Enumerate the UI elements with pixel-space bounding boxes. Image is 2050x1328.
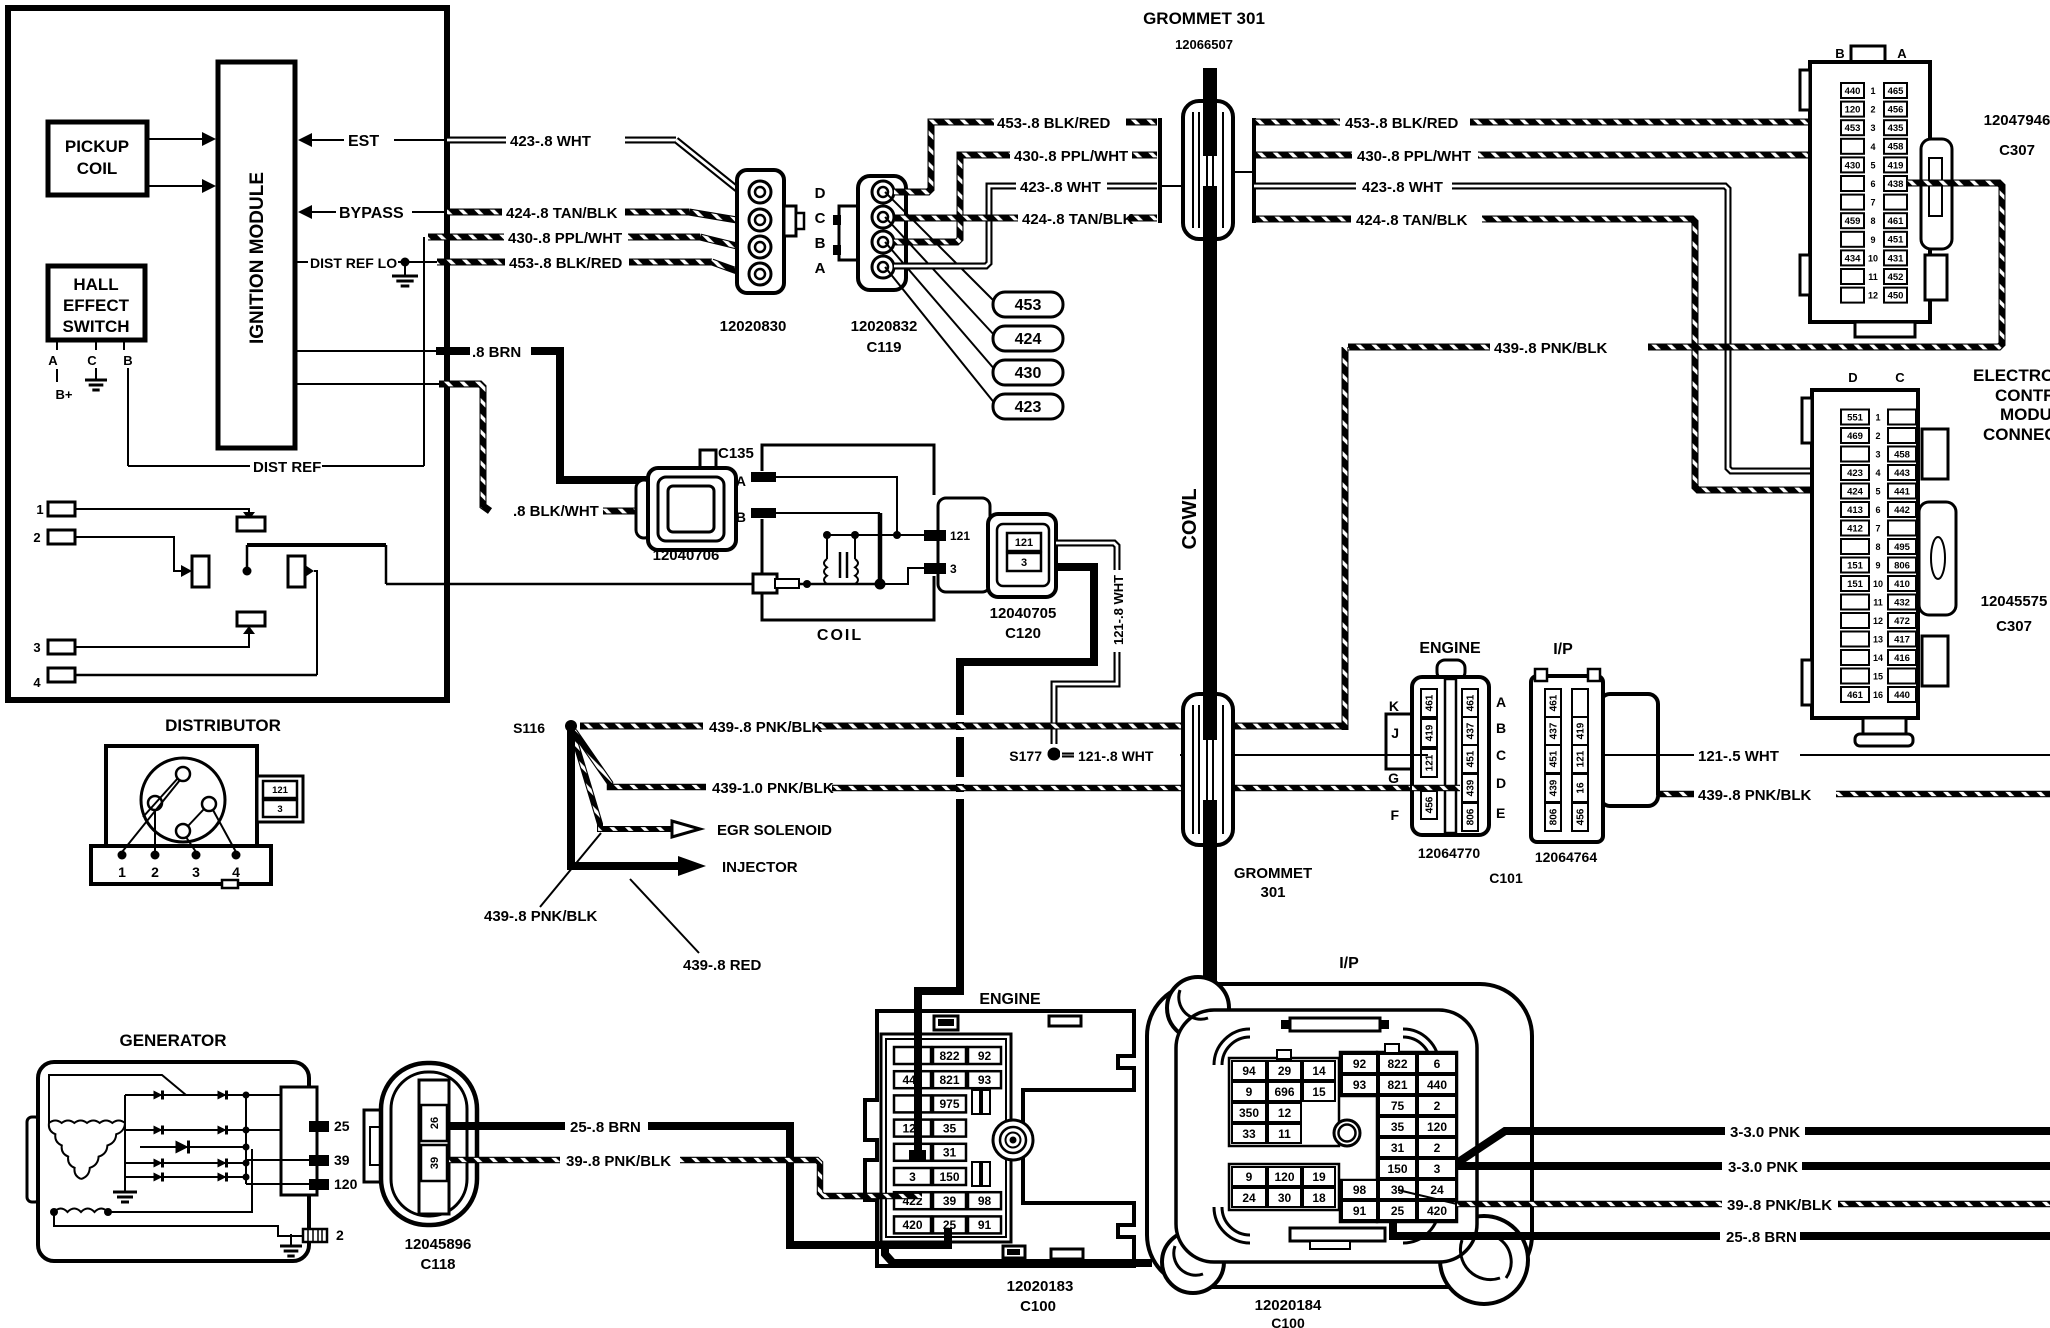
svg-text:437: 437 bbox=[1466, 722, 1477, 739]
rotor contact 1 bbox=[176, 767, 190, 781]
svg-text:806: 806 bbox=[1549, 808, 1560, 825]
wire .8 BLK/WHT bbox=[439, 384, 490, 511]
pin row 6 of 12047946 bbox=[1841, 176, 1864, 191]
svg-text:437: 437 bbox=[1549, 722, 1560, 739]
svg-text:150: 150 bbox=[939, 1170, 959, 1184]
svg-text:C119: C119 bbox=[866, 339, 901, 356]
svg-text:16: 16 bbox=[1576, 782, 1587, 794]
svg-text:120: 120 bbox=[1845, 105, 1861, 116]
pin row 6 of 12020183 bbox=[894, 1168, 931, 1185]
rotor contact 2 bbox=[148, 796, 162, 810]
cap lead 3 bbox=[186, 837, 196, 852]
svg-text:3: 3 bbox=[909, 1170, 916, 1184]
svg-text:C: C bbox=[87, 353, 97, 368]
pin row 11 of 12045575 bbox=[1841, 595, 1869, 610]
svg-text:COIL: COIL bbox=[817, 627, 863, 644]
svg-text:432: 432 bbox=[1894, 597, 1910, 608]
svg-text:30: 30 bbox=[1278, 1191, 1292, 1205]
pin row 13 of 12045575 bbox=[1841, 632, 1869, 647]
wire 439-1.0 PNK/BLK bbox=[574, 731, 706, 787]
svg-text:424: 424 bbox=[1847, 486, 1864, 497]
svg-text:C118: C118 bbox=[420, 1256, 455, 1273]
svg-text:GROMMET 301: GROMMET 301 bbox=[1143, 9, 1265, 28]
svg-text:822: 822 bbox=[1387, 1057, 1407, 1071]
ground at DIST REF LO bbox=[404, 264, 406, 276]
svg-text:696: 696 bbox=[1274, 1085, 1294, 1099]
upper left grid bbox=[1229, 1058, 1339, 1146]
svg-text:121-.8 WHT: 121-.8 WHT bbox=[1078, 748, 1154, 764]
svg-text:39-.8 PNK/BLK: 39-.8 PNK/BLK bbox=[566, 1153, 671, 1170]
svg-text:35: 35 bbox=[943, 1121, 957, 1135]
connector 12040705 C120 bbox=[938, 498, 990, 592]
svg-text:C100: C100 bbox=[1020, 1298, 1056, 1315]
wire stator feed top bbox=[49, 1075, 186, 1123]
node junction 3 bbox=[875, 579, 886, 590]
svg-text:3: 3 bbox=[277, 804, 282, 815]
circuit oval 453 bbox=[993, 292, 1063, 317]
svg-text:.8 BLK/WHT: .8 BLK/WHT bbox=[513, 503, 599, 520]
svg-text:12045896: 12045896 bbox=[405, 1236, 472, 1253]
rotor contact 4 bbox=[176, 824, 190, 838]
svg-text:435: 435 bbox=[1888, 123, 1905, 134]
diode bus right bbox=[245, 1095, 247, 1184]
svg-text:ENGINE: ENGINE bbox=[1419, 640, 1481, 657]
contact E1 bbox=[243, 512, 255, 520]
svg-text:439-.8 PNK/BLK: 439-.8 PNK/BLK bbox=[484, 908, 598, 925]
generator case bbox=[27, 1117, 40, 1202]
svg-text:423-.8 WHT: 423-.8 WHT bbox=[1362, 179, 1443, 196]
pin row 11 of 12047946 bbox=[1841, 269, 1864, 284]
svg-text:121-.8 WHT: 121-.8 WHT bbox=[1111, 575, 1126, 645]
wire to pin 120 bbox=[246, 1183, 309, 1185]
cap lead 4 bbox=[213, 810, 236, 852]
svg-text:A: A bbox=[815, 260, 826, 277]
wire 121-.5 WHT bbox=[1602, 754, 1694, 756]
pin row 14 of 12045575 bbox=[1841, 650, 1869, 665]
pin row 3 of 12045575 bbox=[1841, 447, 1869, 462]
tab top right bbox=[1049, 1016, 1081, 1026]
wire 439 into pin D bbox=[1412, 785, 1460, 792]
svg-text:459: 459 bbox=[1845, 216, 1861, 227]
svg-text:SWITCH: SWITCH bbox=[62, 317, 129, 336]
svg-text:430: 430 bbox=[1015, 365, 1042, 382]
wire 121 into pin G bbox=[1412, 754, 1428, 756]
distributor cap body bbox=[106, 746, 257, 849]
connector 12040706 bbox=[636, 480, 652, 538]
svg-text:439: 439 bbox=[1549, 779, 1560, 796]
lower left grid bbox=[1229, 1164, 1339, 1210]
pin row 4 of 12047946 bbox=[1841, 139, 1864, 154]
svg-text:11: 11 bbox=[1868, 272, 1878, 282]
grommet 301 upper bbox=[1183, 101, 1233, 239]
svg-text:456: 456 bbox=[1888, 105, 1904, 116]
coil feed line from distributor bbox=[385, 545, 388, 584]
node DIST REF bbox=[128, 465, 250, 467]
svg-text:25-.8 BRN: 25-.8 BRN bbox=[1726, 1229, 1797, 1246]
svg-text:151: 151 bbox=[1847, 560, 1864, 571]
wire to EGR solenoid bbox=[573, 734, 672, 829]
pin row 7 of 12020183 bbox=[894, 1192, 931, 1209]
svg-text:416: 416 bbox=[1894, 653, 1910, 664]
circuit oval 423 bbox=[993, 394, 1063, 419]
svg-text:495: 495 bbox=[1894, 542, 1911, 553]
svg-text:HALL: HALL bbox=[73, 275, 118, 294]
grommet 301 lower bbox=[1183, 694, 1233, 845]
svg-text:439: 439 bbox=[1466, 779, 1477, 796]
svg-text:4: 4 bbox=[1870, 142, 1875, 152]
wire 430-.8 PPL/WHT bbox=[428, 234, 504, 241]
svg-text:C307: C307 bbox=[1996, 618, 2032, 635]
svg-text:7: 7 bbox=[1875, 524, 1880, 534]
node DIST REF LO bbox=[295, 261, 308, 263]
coil core bbox=[839, 552, 842, 578]
svg-text:.8 BRN: .8 BRN bbox=[472, 344, 521, 361]
svg-text:121-.5 WHT: 121-.5 WHT bbox=[1698, 748, 1779, 765]
rotor contact 3 bbox=[202, 797, 216, 811]
contact E4 bbox=[237, 612, 265, 626]
wire A to 121 node bbox=[776, 477, 897, 533]
pickup coil bbox=[48, 122, 147, 195]
svg-text:35: 35 bbox=[1391, 1120, 1405, 1134]
svg-text:430: 430 bbox=[1845, 160, 1861, 171]
pin row 2 of 12047946 bbox=[1841, 102, 1864, 117]
svg-text:424: 424 bbox=[1015, 331, 1042, 348]
svg-text:14: 14 bbox=[1873, 653, 1883, 663]
svg-text:419: 419 bbox=[1576, 722, 1587, 739]
pin row 5 of 12045575 bbox=[1841, 484, 1869, 499]
svg-text:E: E bbox=[1496, 805, 1505, 821]
wire terminal 3 to contact E4 bbox=[75, 634, 249, 647]
ear crescents bbox=[1179, 990, 1208, 1019]
svg-text:469: 469 bbox=[1847, 431, 1863, 442]
svg-text:451: 451 bbox=[1466, 750, 1477, 767]
node S-coil bbox=[803, 580, 811, 588]
pin row 2 of 12020183 bbox=[894, 1071, 931, 1088]
wire 453-.8 BLK/RED bbox=[437, 259, 505, 266]
svg-text:3: 3 bbox=[950, 562, 957, 576]
svg-text:39: 39 bbox=[334, 1152, 350, 1168]
svg-text:I/P: I/P bbox=[1553, 641, 1573, 658]
pin row 3 of 12020183 bbox=[894, 1095, 931, 1112]
pin row 1 of I/P lower-left grid bbox=[1232, 1167, 1266, 1186]
diode row A bbox=[125, 1094, 281, 1096]
wire .8 BRN bbox=[436, 347, 470, 355]
pin row 2 of I/P lower-left grid bbox=[1232, 1188, 1266, 1207]
coil windings bbox=[824, 559, 827, 584]
svg-text:39: 39 bbox=[943, 1194, 957, 1208]
svg-text:A: A bbox=[1897, 46, 1907, 61]
svg-text:92: 92 bbox=[978, 1049, 992, 1063]
svg-text:11: 11 bbox=[1278, 1127, 1291, 1141]
contact E2 bbox=[181, 565, 192, 577]
svg-text:5: 5 bbox=[1870, 160, 1875, 170]
svg-text:B+: B+ bbox=[56, 387, 73, 402]
wire pickup coil to module bbox=[147, 138, 202, 140]
svg-text:12040706: 12040706 bbox=[653, 547, 720, 564]
pin row 1 of 12045575 bbox=[1841, 410, 1869, 425]
wire to injector bbox=[571, 730, 678, 866]
svg-text:S116: S116 bbox=[513, 720, 545, 736]
svg-text:92: 92 bbox=[1353, 1057, 1367, 1071]
connector 12064764 bbox=[1600, 694, 1658, 806]
svg-text:806: 806 bbox=[1466, 808, 1477, 825]
cap lead 2 bbox=[154, 810, 156, 852]
svg-text:93: 93 bbox=[978, 1073, 992, 1087]
svg-text:J: J bbox=[1391, 725, 1399, 741]
svg-text:D: D bbox=[815, 185, 826, 202]
svg-text:I/P: I/P bbox=[1339, 955, 1359, 972]
svg-text:461: 461 bbox=[1847, 690, 1864, 701]
svg-text:301: 301 bbox=[1260, 884, 1285, 901]
pin row 9 of 12045575 bbox=[1841, 558, 1869, 573]
wire 3-3.0 PNK into pin row bbox=[914, 1034, 922, 1158]
svg-text:8: 8 bbox=[1870, 216, 1875, 226]
svg-text:3: 3 bbox=[33, 640, 40, 655]
svg-text:91: 91 bbox=[1353, 1204, 1367, 1218]
wire DIST REF to 430 output bbox=[423, 237, 425, 466]
rotor arm lines bbox=[143, 778, 178, 817]
svg-text:438: 438 bbox=[1888, 179, 1904, 190]
svg-text:456: 456 bbox=[1425, 796, 1436, 813]
svg-text:93: 93 bbox=[1353, 1078, 1367, 1092]
coil case outline bbox=[762, 445, 934, 495]
svg-text:31: 31 bbox=[1391, 1141, 1405, 1155]
cap circle bbox=[141, 758, 225, 842]
svg-text:S177: S177 bbox=[1009, 748, 1042, 764]
wire pickup coil to module 2 bbox=[147, 185, 202, 187]
pin row 4 of 12020183 bbox=[894, 1120, 931, 1137]
svg-text:F: F bbox=[1390, 807, 1399, 823]
svg-text:424-.8 TAN/BLK: 424-.8 TAN/BLK bbox=[506, 205, 618, 222]
terminal dots bbox=[118, 851, 127, 860]
distributor cap base bbox=[91, 846, 271, 884]
svg-text:3: 3 bbox=[1875, 450, 1880, 460]
pin row 3 of 12047946 bbox=[1841, 120, 1864, 135]
svg-text:1: 1 bbox=[118, 864, 126, 880]
svg-text:2: 2 bbox=[1434, 1141, 1441, 1155]
svg-text:DIST REF: DIST REF bbox=[253, 459, 321, 476]
svg-text:456: 456 bbox=[1576, 808, 1587, 825]
wire 424-.8 TAN/BLK (BYPASS) bbox=[447, 209, 502, 216]
callout lines to circuit ovals bbox=[885, 192, 996, 303]
svg-text:440: 440 bbox=[1427, 1078, 1447, 1092]
svg-text:12: 12 bbox=[1868, 291, 1878, 301]
svg-text:2: 2 bbox=[336, 1227, 344, 1243]
svg-text:461: 461 bbox=[1549, 694, 1560, 711]
tab bottom left bbox=[1003, 1246, 1025, 1258]
wire 39-.8 PNK/BLK bbox=[449, 1157, 560, 1164]
svg-text:GENERATOR: GENERATOR bbox=[119, 1031, 226, 1050]
svg-text:458: 458 bbox=[1888, 142, 1904, 153]
svg-text:31: 31 bbox=[943, 1146, 957, 1160]
svg-text:8: 8 bbox=[1875, 542, 1880, 552]
diode row E bbox=[125, 1176, 246, 1178]
svg-text:ENGINE: ENGINE bbox=[979, 991, 1041, 1008]
svg-text:3-3.0 PNK: 3-3.0 PNK bbox=[1730, 1124, 1800, 1141]
pin 39 bbox=[309, 1155, 329, 1166]
svg-text:430-.8 PPL/WHT: 430-.8 PPL/WHT bbox=[1014, 148, 1128, 165]
diode bus left bbox=[124, 1095, 126, 1180]
svg-text:3: 3 bbox=[192, 864, 200, 880]
svg-text:2: 2 bbox=[1870, 105, 1875, 115]
pin row 4 of I/P upper-left grid bbox=[1232, 1124, 1266, 1143]
pin 2 crosshatched bbox=[303, 1229, 327, 1242]
svg-text:439-.8 PNK/BLK: 439-.8 PNK/BLK bbox=[1494, 340, 1608, 357]
svg-text:3-3.0 PNK: 3-3.0 PNK bbox=[1728, 1159, 1798, 1176]
hall pin B bbox=[123, 340, 125, 350]
svg-text:12045575: 12045575 bbox=[1981, 593, 2048, 610]
pin row 10 of 12045575 bbox=[1841, 576, 1869, 591]
pin row 5 of I/P right grid bbox=[1379, 1138, 1416, 1157]
svg-text:9: 9 bbox=[1246, 1170, 1253, 1184]
svg-text:1: 1 bbox=[1875, 413, 1880, 423]
svg-text:C100: C100 bbox=[1271, 1315, 1305, 1328]
right grid bbox=[1377, 1052, 1457, 1222]
wire module to .8 BRN bbox=[295, 350, 436, 352]
pin row 8 of I/P right grid bbox=[1342, 1201, 1377, 1220]
svg-text:12020184: 12020184 bbox=[1255, 1297, 1322, 1314]
wire 439-.8 PNK/BLK riser bbox=[1342, 347, 1349, 730]
svg-text:434: 434 bbox=[1845, 253, 1862, 264]
wire crossing breaks at riser bbox=[953, 715, 967, 722]
connector 12020183 body bbox=[865, 1011, 1134, 1266]
svg-text:461: 461 bbox=[1466, 694, 1477, 711]
tab bottom right bbox=[1051, 1249, 1083, 1259]
svg-text:2: 2 bbox=[1875, 431, 1880, 441]
svg-text:417: 417 bbox=[1894, 634, 1910, 645]
wire 439-.8 PNK/BLK from S116 bbox=[580, 723, 703, 730]
svg-text:419: 419 bbox=[1425, 724, 1436, 741]
wire 25-.8 BRN to I/P harness bbox=[1393, 1220, 1720, 1236]
pin row 1 of 12020183 bbox=[894, 1047, 931, 1064]
svg-text:EFFECT: EFFECT bbox=[63, 296, 130, 315]
wire 39-.8 PNK/BLK to I/P harness bbox=[1398, 1190, 1457, 1204]
wire 3-3.0 PNK lower bbox=[1457, 1162, 1722, 1170]
svg-text:451: 451 bbox=[1888, 235, 1905, 246]
svg-text:C135: C135 bbox=[718, 445, 754, 462]
svg-text:14: 14 bbox=[1312, 1064, 1326, 1078]
pin row 10 of 12047946 bbox=[1841, 250, 1864, 265]
svg-text:G: G bbox=[1388, 770, 1399, 786]
svg-text:424-.8 TAN/BLK: 424-.8 TAN/BLK bbox=[1022, 211, 1134, 228]
svg-text:18: 18 bbox=[1312, 1191, 1326, 1205]
wire 423-.8 WHT right bbox=[1254, 183, 1356, 190]
svg-text:440: 440 bbox=[1894, 690, 1910, 701]
pin row 5 of 12020183 bbox=[894, 1144, 931, 1161]
svg-text:423: 423 bbox=[1847, 468, 1863, 479]
cap lead 1 bbox=[122, 780, 180, 852]
wire 439 from pin 6 over extension bbox=[1907, 180, 1999, 187]
node BYPASS bbox=[298, 205, 312, 219]
svg-text:410: 410 bbox=[1894, 579, 1910, 590]
svg-text:CONNECTOR: CONNECTOR bbox=[1983, 425, 2050, 444]
svg-text:821: 821 bbox=[939, 1073, 959, 1087]
pin row 1 of I/P right grid bbox=[1342, 1054, 1377, 1073]
svg-text:121: 121 bbox=[950, 529, 970, 543]
svg-text:430-.8 PPL/WHT: 430-.8 PPL/WHT bbox=[1357, 148, 1471, 165]
stator delta winding bbox=[49, 1121, 125, 1124]
svg-text:453: 453 bbox=[1845, 123, 1861, 134]
hall pin C bbox=[95, 340, 97, 350]
wire 25-.8 BRN into pin 25 bbox=[877, 1228, 948, 1245]
svg-text:9: 9 bbox=[1870, 235, 1875, 245]
svg-text:25: 25 bbox=[1391, 1204, 1405, 1218]
svg-text:1: 1 bbox=[1870, 86, 1875, 96]
wire cowl harness lower bbox=[1203, 845, 1217, 1010]
svg-text:806: 806 bbox=[1894, 560, 1910, 571]
svg-text:7: 7 bbox=[1870, 198, 1875, 208]
svg-text:39: 39 bbox=[429, 1157, 441, 1169]
tab top bbox=[1290, 1018, 1380, 1031]
pin row 6 of I/P right grid bbox=[1379, 1159, 1416, 1178]
svg-text:75: 75 bbox=[1391, 1099, 1405, 1113]
svg-text:19: 19 bbox=[1312, 1170, 1326, 1184]
wire 39-.8 PNK/BLK into pin 422 bbox=[852, 1193, 922, 1200]
svg-text:458: 458 bbox=[1894, 449, 1910, 460]
svg-text:B: B bbox=[1835, 46, 1844, 61]
pin row 7 of I/P right grid bbox=[1342, 1180, 1377, 1199]
svg-text:423: 423 bbox=[1015, 399, 1042, 416]
wire hall B to DIST REF bbox=[127, 368, 129, 466]
pin 3 of coil bbox=[924, 563, 946, 574]
pin row 8 of 12045575 bbox=[1841, 539, 1869, 554]
wire to pin 3 bbox=[884, 568, 924, 584]
wire 39 to I/P connector bbox=[885, 1198, 1152, 1263]
circuit oval 424 bbox=[993, 326, 1063, 351]
svg-text:DIST REF LO: DIST REF LO bbox=[310, 255, 397, 271]
svg-text:121: 121 bbox=[1015, 537, 1033, 549]
cap side connector 121/3 bbox=[257, 776, 303, 822]
svg-text:461: 461 bbox=[1425, 694, 1436, 711]
svg-text:1: 1 bbox=[36, 502, 43, 517]
svg-text:3: 3 bbox=[1870, 123, 1875, 133]
hall pin A bbox=[56, 340, 58, 350]
wire 3-3.0 PNK upper bbox=[1457, 1131, 1725, 1163]
pin row 2 of I/P upper-left grid bbox=[1232, 1082, 1266, 1101]
svg-text:D: D bbox=[1848, 370, 1857, 385]
svg-text:451: 451 bbox=[1549, 750, 1560, 767]
svg-text:439-.8 PNK/BLK: 439-.8 PNK/BLK bbox=[1698, 787, 1812, 804]
svg-text:13: 13 bbox=[1873, 635, 1883, 645]
svg-text:COIL: COIL bbox=[77, 159, 118, 178]
svg-text:94: 94 bbox=[1242, 1064, 1256, 1078]
svg-text:39: 39 bbox=[1391, 1183, 1405, 1197]
svg-text:C101: C101 bbox=[1489, 870, 1523, 886]
svg-text:B: B bbox=[815, 235, 826, 252]
svg-text:121: 121 bbox=[1425, 754, 1436, 771]
hall effect switch bbox=[48, 266, 145, 340]
pin 25 bbox=[309, 1121, 329, 1132]
pin row 16 of 12045575 bbox=[1841, 687, 1869, 702]
wire cowl harness upper bbox=[1203, 68, 1217, 158]
blade slots bbox=[972, 1090, 980, 1114]
svg-text:12: 12 bbox=[1278, 1106, 1292, 1120]
svg-text:DISTRIBUTOR: DISTRIBUTOR bbox=[165, 716, 281, 735]
svg-text:453-.8 BLK/RED: 453-.8 BLK/RED bbox=[1345, 115, 1459, 132]
svg-text:C: C bbox=[1895, 370, 1905, 385]
pin row 6 of 12045575 bbox=[1841, 502, 1869, 517]
wire 439-.8 PNK/BLK from ECM pin 6 bbox=[1648, 183, 2002, 347]
svg-text:423-.8 WHT: 423-.8 WHT bbox=[510, 133, 591, 150]
svg-text:INJECTOR: INJECTOR bbox=[722, 859, 798, 876]
pin row 8 of 12047946 bbox=[1841, 213, 1864, 228]
svg-text:453-.8 BLK/RED: 453-.8 BLK/RED bbox=[997, 115, 1111, 132]
svg-text:12040705: 12040705 bbox=[990, 605, 1057, 622]
wire junction to coil feed bbox=[246, 545, 249, 571]
pin row 7 of 12047946 bbox=[1841, 195, 1864, 210]
svg-text:B: B bbox=[736, 509, 746, 525]
diode row B bbox=[125, 1129, 309, 1131]
